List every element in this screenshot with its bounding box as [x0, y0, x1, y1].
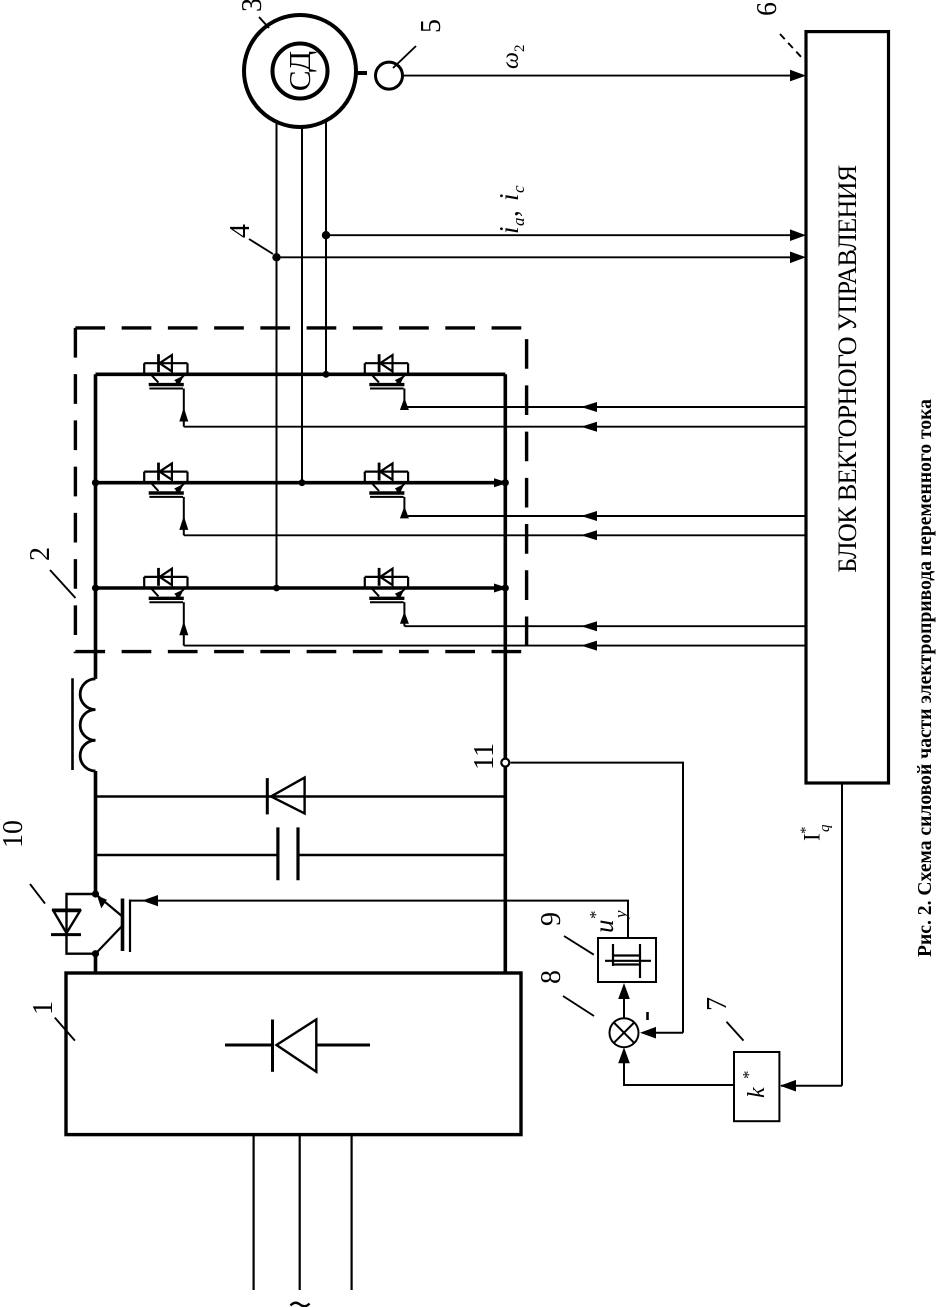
svg-text:11: 11	[469, 743, 500, 770]
svg-text:3: 3	[237, 0, 268, 12]
svg-text:6: 6	[752, 2, 783, 16]
svg-text:9: 9	[536, 912, 567, 926]
svg-text:7: 7	[702, 997, 733, 1011]
svg-text:*: *	[739, 1071, 758, 1080]
svg-text:*: *	[798, 827, 814, 835]
svg-text:8: 8	[536, 970, 567, 984]
svg-text:1: 1	[28, 1001, 59, 1015]
svg-text:k: k	[744, 1087, 770, 1098]
svg-text:2: 2	[512, 45, 528, 53]
svg-text:*: *	[586, 911, 605, 920]
svg-text:,: ,	[494, 210, 524, 217]
svg-text:СД: СД	[282, 51, 317, 91]
svg-text:у: у	[611, 910, 630, 920]
svg-text:10: 10	[0, 820, 29, 848]
svg-text:q: q	[817, 824, 833, 832]
svg-text:ω: ω	[498, 52, 524, 69]
svg-text:БЛОК ВЕКТОРНОГО УПРАВЛЕНИЯ: БЛОК ВЕКТОРНОГО УПРАВЛЕНИЯ	[833, 165, 862, 573]
svg-text:5: 5	[416, 19, 447, 33]
svg-text:4: 4	[225, 224, 256, 238]
svg-text:i: i	[494, 193, 524, 201]
svg-text:Рис. 2. Схема силовой части эл: Рис. 2. Схема силовой части электроприво…	[915, 399, 936, 957]
svg-text:i: i	[494, 226, 524, 234]
svg-text:а: а	[509, 218, 528, 227]
svg-text:с: с	[509, 185, 528, 193]
svg-text:u: u	[589, 920, 619, 934]
svg-text:2: 2	[25, 547, 56, 561]
